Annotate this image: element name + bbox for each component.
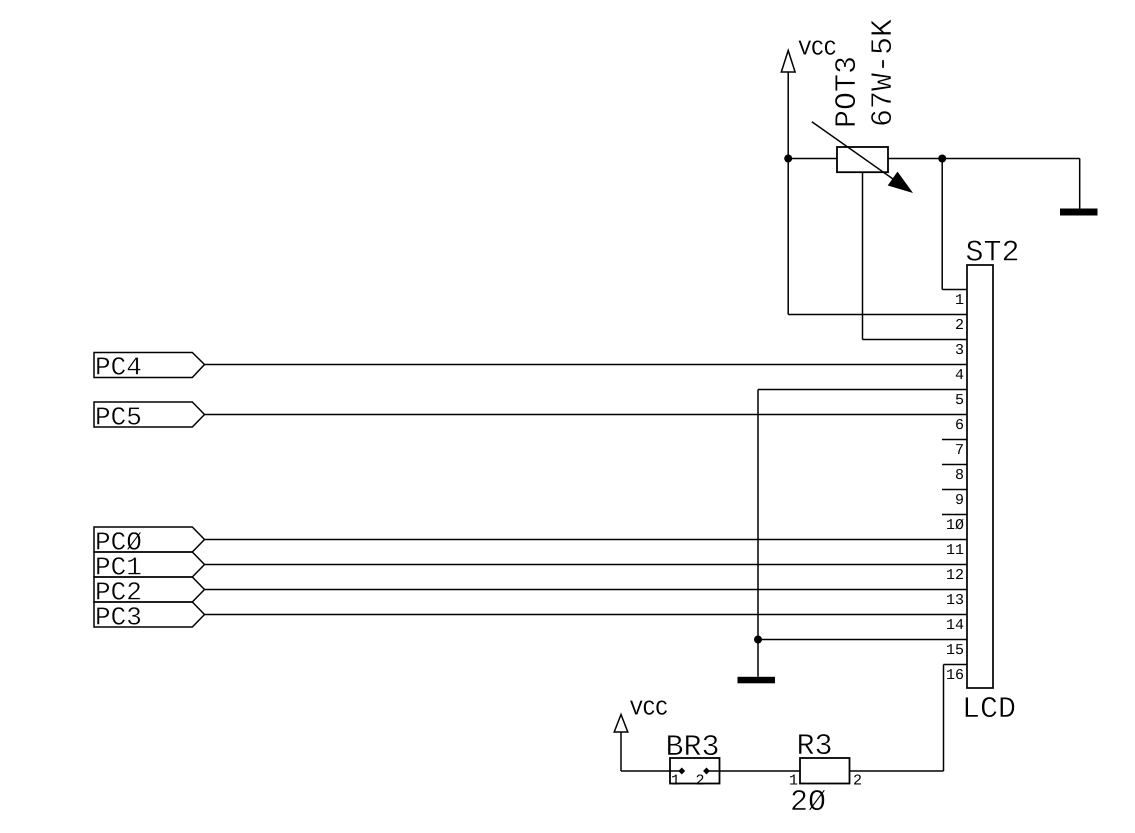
pin numbers 1-16 bbox=[946, 292, 964, 684]
svg-text:1: 1 bbox=[671, 773, 680, 790]
bridge BR3 bbox=[670, 758, 720, 790]
flag PC3 bbox=[94, 602, 205, 633]
wire PC0 to pin 11 bbox=[205, 539, 968, 541]
flag PC2 bbox=[94, 577, 205, 608]
svg-text:R3: R3 bbox=[797, 730, 833, 764]
svg-text:16: 16 bbox=[946, 667, 964, 684]
ground (bottom) bbox=[738, 677, 776, 684]
svg-text:PC3: PC3 bbox=[95, 603, 142, 633]
wire pin 16 down to R3 bbox=[943, 665, 945, 772]
svg-text:POT3: POT3 bbox=[831, 56, 865, 128]
svg-text:6: 6 bbox=[955, 417, 964, 434]
svg-text:1Ø: 1Ø bbox=[946, 517, 964, 534]
svg-text:LCD: LCD bbox=[962, 693, 1016, 727]
svg-text:12: 12 bbox=[946, 567, 964, 584]
connector ST2 bbox=[967, 265, 993, 688]
flag PC4 bbox=[94, 353, 205, 383]
svg-text:67W-5K: 67W-5K bbox=[867, 19, 901, 127]
wire pin 5 to ground net bbox=[758, 389, 967, 391]
ground (top right) bbox=[1060, 209, 1098, 216]
power VCC (bottom) bbox=[614, 699, 668, 772]
svg-text:3: 3 bbox=[955, 342, 964, 359]
svg-text:8: 8 bbox=[955, 467, 964, 484]
svg-text:7: 7 bbox=[955, 442, 964, 459]
pin stub 10 bbox=[942, 514, 967, 516]
resistor R3 bbox=[789, 758, 862, 790]
svg-text:4: 4 bbox=[955, 367, 964, 384]
flag PC0 bbox=[94, 527, 205, 558]
wire VCC to BR3 pin 1 bbox=[621, 770, 682, 772]
wire PC2 to pin 13 bbox=[205, 589, 968, 591]
wire PC1 to pin 12 bbox=[205, 564, 968, 566]
flag PC5 bbox=[94, 402, 205, 433]
wire junction to pin 15 bbox=[758, 639, 967, 641]
node junction ground net bbox=[754, 636, 762, 644]
wire PC5 to pin 6 bbox=[205, 414, 968, 416]
svg-text:VCC: VCC bbox=[630, 699, 668, 722]
wire POT3 wiper down to pin 3 bbox=[862, 172, 864, 339]
svg-text:15: 15 bbox=[946, 642, 964, 659]
svg-text:BR3: BR3 bbox=[666, 731, 720, 765]
svg-text:2: 2 bbox=[696, 773, 705, 790]
svg-text:13: 13 bbox=[946, 592, 964, 609]
svg-text:PC4: PC4 bbox=[95, 353, 142, 383]
svg-text:1: 1 bbox=[955, 292, 964, 309]
potentiometer POT3 bbox=[812, 122, 913, 193]
svg-text:2: 2 bbox=[853, 773, 862, 790]
wire PC4 to pin 4 bbox=[205, 364, 968, 366]
flag PC1 bbox=[94, 552, 205, 583]
wire PC3 to pin 14 bbox=[205, 614, 968, 616]
svg-text:5: 5 bbox=[955, 392, 964, 409]
pin stub 9 bbox=[942, 489, 967, 491]
svg-text:PC5: PC5 bbox=[95, 403, 142, 433]
svg-text:14: 14 bbox=[946, 617, 964, 634]
wire junction down to pin 1 bbox=[941, 159, 943, 290]
node junction right bbox=[938, 155, 946, 163]
pin stub 16 bbox=[944, 664, 968, 666]
power VCC (top) bbox=[781, 39, 836, 159]
svg-text:2Ø: 2Ø bbox=[790, 786, 826, 820]
wire POT3 pin1 down to pin 2 bbox=[787, 159, 789, 315]
pin stub 7 bbox=[942, 439, 967, 441]
node junction at VCC/POT3 bbox=[784, 155, 792, 163]
svg-text:11: 11 bbox=[946, 542, 964, 559]
wire BR3 pin 2 to R3 pin 1 bbox=[707, 770, 801, 772]
wire POT3 pin2 to ground bbox=[888, 158, 1080, 160]
svg-text:2: 2 bbox=[955, 317, 964, 334]
svg-text:ST2: ST2 bbox=[966, 237, 1020, 271]
pin stub 8 bbox=[942, 464, 967, 466]
wire VCC to POT3 pin1 bbox=[788, 158, 837, 160]
svg-text:9: 9 bbox=[955, 492, 964, 509]
